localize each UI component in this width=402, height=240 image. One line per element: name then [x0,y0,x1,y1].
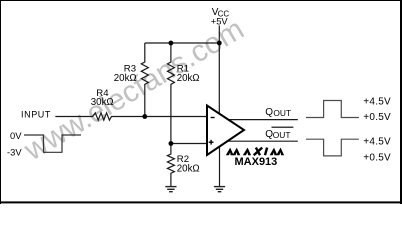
svg-text:OUT: OUT [273,108,291,118]
svg-text:-3V: -3V [7,146,22,157]
svg-text:+0.5V: +0.5V [363,153,391,164]
svg-text:20kΩ: 20kΩ [177,163,200,174]
svg-text:+0.5V: +0.5V [363,112,391,123]
svg-text:20kΩ: 20kΩ [177,73,200,84]
svg-text:20kΩ: 20kΩ [114,73,137,84]
svg-text:30kΩ: 30kΩ [91,97,114,108]
svg-text:OUT: OUT [273,130,291,140]
svg-text:+5V: +5V [211,17,229,27]
svg-text:MAX913: MAX913 [235,156,278,168]
svg-text:+4.5V: +4.5V [363,97,391,108]
svg-text:0V: 0V [10,130,22,141]
svg-text:INPUT: INPUT [21,110,51,120]
svg-text:+4.5V: +4.5V [363,136,391,147]
svg-text:Q: Q [265,107,273,118]
